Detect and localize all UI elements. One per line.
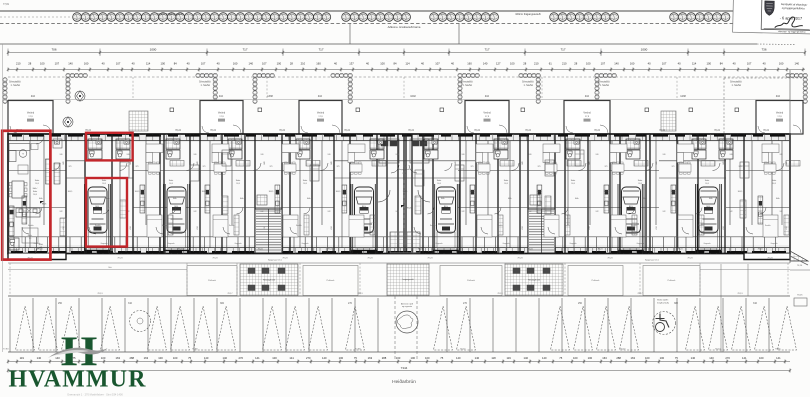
svg-text:140: 140 xyxy=(456,356,461,360)
svg-text:Verönd: Verönd xyxy=(27,112,35,115)
svg-text:28: 28 xyxy=(574,62,577,66)
svg-text:107: 107 xyxy=(662,62,667,66)
svg-text:107: 107 xyxy=(747,62,752,66)
svg-text:Byggingarreitur: Byggingarreitur xyxy=(268,258,282,261)
svg-text:75: 75 xyxy=(675,356,678,360)
svg-text:1338: 1338 xyxy=(267,95,273,98)
svg-text:77,88: 77,88 xyxy=(192,349,198,351)
svg-text:1. hæðar: 1. hæðar xyxy=(463,84,473,87)
garden trees xyxy=(75,91,85,101)
svg-text:100: 100 xyxy=(272,356,277,360)
extra closets and beds xyxy=(120,162,129,178)
scan tone wash xyxy=(8,134,790,254)
svg-text:210: 210 xyxy=(301,62,306,66)
parking stalls xyxy=(9,298,11,352)
svg-text:107: 107 xyxy=(601,62,606,66)
svg-text:78,23: 78,23 xyxy=(767,258,773,260)
svg-text:78,07: 78,07 xyxy=(460,349,466,351)
svg-text:107: 107 xyxy=(201,62,206,66)
svg-text:78,17: 78,17 xyxy=(637,293,643,295)
svg-text:736: 736 xyxy=(761,47,766,51)
svg-text:100: 100 xyxy=(588,356,593,360)
svg-text:270: 270 xyxy=(239,356,244,360)
svg-text:78,24: 78,24 xyxy=(474,130,480,132)
svg-text:78,23: 78,23 xyxy=(427,258,433,260)
svg-text:717: 717 xyxy=(318,47,323,51)
svg-text:107: 107 xyxy=(262,62,267,66)
south dashed connectors xyxy=(9,263,11,296)
svg-text:75: 75 xyxy=(559,356,562,360)
svg-text:140: 140 xyxy=(709,356,714,360)
corridor line xyxy=(8,236,790,238)
svg-text:Grænamýri 1 · 270 Mosfellsbær: Grænamýri 1 · 270 Mosfellsbær · Sími 534… xyxy=(67,393,123,397)
centre drive dashes xyxy=(394,296,396,361)
svg-text:160: 160 xyxy=(630,62,635,66)
svg-text:78,24: 78,24 xyxy=(715,349,721,351)
svg-text:28: 28 xyxy=(523,62,526,66)
svg-text:40: 40 xyxy=(217,62,220,66)
svg-text:78,23: 78,23 xyxy=(282,258,288,260)
svg-text:78,13: 78,13 xyxy=(497,293,503,295)
stamp shield xyxy=(765,1,775,16)
entry paving centre xyxy=(387,264,429,296)
svg-text:1. hæðar: 1. hæðar xyxy=(732,84,742,87)
svg-text:100: 100 xyxy=(573,356,578,360)
svg-text:410: 410 xyxy=(318,95,323,98)
stairwells xyxy=(255,195,282,253)
svg-text:100: 100 xyxy=(277,62,282,66)
svg-text:163: 163 xyxy=(115,356,120,360)
svg-text:107: 107 xyxy=(435,62,440,66)
entry paving south right xyxy=(505,264,563,296)
handicap stall xyxy=(653,312,676,335)
hedge band dashed line xyxy=(0,23,733,25)
svg-text:100: 100 xyxy=(173,356,178,360)
svg-text:100: 100 xyxy=(380,62,385,66)
svg-text:140: 140 xyxy=(614,62,619,66)
svg-text:288: 288 xyxy=(130,356,135,360)
svg-text:717: 717 xyxy=(242,47,247,51)
svg-text:78,23: 78,23 xyxy=(27,258,33,260)
svg-text:78,17: 78,17 xyxy=(227,293,233,295)
svg-text:140: 140 xyxy=(542,356,547,360)
hedge band top line xyxy=(0,10,757,12)
svg-text:140: 140 xyxy=(322,356,327,360)
svg-text:Hellulögð stétt: Hellulögð stétt xyxy=(263,279,275,282)
svg-text:28: 28 xyxy=(290,62,293,66)
garages with cars xyxy=(85,184,111,253)
svg-text:270: 270 xyxy=(463,302,468,305)
building right unit extension xyxy=(744,254,790,260)
svg-text:160: 160 xyxy=(84,62,89,66)
svg-text:75: 75 xyxy=(188,356,191,360)
svg-text:78,24: 78,24 xyxy=(279,130,285,132)
svg-text:140: 140 xyxy=(483,62,488,66)
total dimension xyxy=(8,370,790,372)
svg-text:100: 100 xyxy=(425,356,430,360)
svg-text:78,23: 78,23 xyxy=(517,258,523,260)
svg-text:Verönd: Verönd xyxy=(583,112,591,115)
bottom chain line xyxy=(8,361,790,363)
svg-text:40: 40 xyxy=(733,62,736,66)
svg-text:140: 140 xyxy=(523,356,528,360)
fence posts xyxy=(170,108,174,112)
kitchen counters xyxy=(22,196,27,224)
svg-text:40: 40 xyxy=(102,62,105,66)
svg-text:1238: 1238 xyxy=(680,95,686,98)
svg-text:75: 75 xyxy=(440,356,443,360)
svg-text:1. hæðar: 1. hæðar xyxy=(201,84,211,87)
patio boxes xyxy=(187,266,237,296)
round planter left xyxy=(130,311,151,332)
living furniture xyxy=(146,144,184,237)
svg-text:160: 160 xyxy=(233,62,238,66)
svg-text:310: 310 xyxy=(128,302,133,305)
svg-text:Verönd: Verönd xyxy=(776,112,784,115)
svg-text:1002: 1002 xyxy=(410,95,416,98)
svg-text:77,83: 77,83 xyxy=(3,349,9,351)
svg-text:78,23: 78,23 xyxy=(117,258,123,260)
svg-text:140: 140 xyxy=(475,356,480,360)
svg-text:78,23: 78,23 xyxy=(367,258,373,260)
svg-text:100: 100 xyxy=(160,62,165,66)
svg-text:78,24: 78,24 xyxy=(175,130,181,132)
svg-text:40: 40 xyxy=(187,62,190,66)
svg-text:160: 160 xyxy=(467,62,472,66)
hedge shrubs xyxy=(73,13,730,22)
stamp signature xyxy=(775,17,803,29)
svg-text:100: 100 xyxy=(410,356,415,360)
svg-text:Verönd: Verönd xyxy=(218,112,226,115)
svg-text:210: 210 xyxy=(534,62,539,66)
svg-text:78,24: 78,24 xyxy=(210,130,216,132)
svg-text:270: 270 xyxy=(725,356,730,360)
svg-text:141: 141 xyxy=(742,356,747,360)
svg-text:140: 140 xyxy=(55,356,60,360)
svg-text:Verönd: Verönd xyxy=(317,112,325,115)
west boundary xyxy=(2,44,4,352)
svg-text:og byggingarfulltrúa: og byggingarfulltrúa xyxy=(782,6,805,11)
svg-text:163: 163 xyxy=(396,356,401,360)
svg-text:141: 141 xyxy=(255,356,260,360)
svg-text:140: 140 xyxy=(222,356,227,360)
svg-text:40: 40 xyxy=(334,62,337,66)
svg-text:77,88: 77,88 xyxy=(355,349,361,351)
svg-text:410: 410 xyxy=(31,95,36,98)
svg-text:78,07: 78,07 xyxy=(620,349,626,351)
svg-text:114: 114 xyxy=(146,62,151,66)
verandas xyxy=(8,101,53,135)
svg-text:100: 100 xyxy=(586,62,591,66)
parking bottom line xyxy=(8,351,790,353)
svg-text:Pallverk: Pallverk xyxy=(467,279,476,282)
svg-text:100: 100 xyxy=(40,62,45,66)
secondary partitions xyxy=(29,141,31,248)
svg-text:40: 40 xyxy=(648,62,651,66)
svg-text:HVAMMUR: HVAMMUR xyxy=(9,367,147,393)
svg-text:163: 163 xyxy=(630,356,635,360)
svg-text:Inngangsstétt: Inngangsstétt xyxy=(402,278,414,281)
svg-text:270: 270 xyxy=(348,302,353,305)
svg-text:Hellulögð stétt: Hellulögð stétt xyxy=(528,279,540,282)
svg-text:40: 40 xyxy=(421,62,424,66)
svg-text:78,13: 78,13 xyxy=(737,293,743,295)
red highlight garage 01 xyxy=(86,178,127,247)
svg-text:141: 141 xyxy=(289,356,294,360)
storage partitions bottom xyxy=(13,237,15,252)
red highlight apartment unit 01 xyxy=(2,131,50,260)
svg-text:717: 717 xyxy=(484,47,489,51)
svg-text:100: 100 xyxy=(510,62,515,66)
svg-text:250: 250 xyxy=(58,302,63,305)
svg-text:61: 61 xyxy=(549,62,552,66)
svg-text:78,24: 78,24 xyxy=(408,130,414,132)
svg-text:Merkt stæði f.: Merkt stæði f. xyxy=(657,299,669,302)
svg-text:163: 163 xyxy=(144,356,149,360)
hedge band left dashes xyxy=(0,16,75,18)
svg-text:78,36: 78,36 xyxy=(775,349,781,351)
svg-text:1000: 1000 xyxy=(150,47,157,51)
east boundary xyxy=(789,70,791,263)
svg-text:140: 140 xyxy=(691,356,696,360)
svg-text:1. hæðar: 1. hæðar xyxy=(524,84,534,87)
svg-text:270: 270 xyxy=(306,356,311,360)
svg-text:114: 114 xyxy=(405,62,410,66)
svg-text:40: 40 xyxy=(763,62,766,66)
svg-text:250: 250 xyxy=(578,302,583,305)
red highlight storage rooms xyxy=(86,133,133,161)
svg-text:40: 40 xyxy=(132,62,135,66)
svg-text:75: 75 xyxy=(354,356,357,360)
round planter centre xyxy=(396,311,418,333)
svg-text:Afrennsli í jörð: Afrennsli í jörð xyxy=(401,303,413,306)
svg-text:78,24: 78,24 xyxy=(525,130,531,132)
svg-text:140: 140 xyxy=(794,62,799,66)
svg-text:163: 163 xyxy=(368,356,373,360)
svg-text:1. hæðar: 1. hæðar xyxy=(11,84,21,87)
svg-text:78,23: 78,23 xyxy=(212,258,218,260)
svg-text:1000: 1000 xyxy=(641,47,648,51)
svg-text:410: 410 xyxy=(776,95,781,98)
svg-text:Pallverk: Pallverk xyxy=(668,279,677,282)
main dimension line xyxy=(8,52,805,54)
svg-text:100: 100 xyxy=(759,356,764,360)
svg-text:100: 100 xyxy=(645,356,650,360)
building outline xyxy=(8,134,790,254)
svg-text:78,23: 78,23 xyxy=(607,258,613,260)
interior door arcs xyxy=(53,163,61,171)
dimension chain xyxy=(16,62,799,66)
svg-text:78,24: 78,24 xyxy=(594,130,600,132)
svg-text:210: 210 xyxy=(562,62,567,66)
svg-text:140: 140 xyxy=(248,62,253,66)
bottom window band xyxy=(8,248,790,254)
walkway line xyxy=(8,262,790,264)
svg-text:119: 119 xyxy=(20,356,25,360)
svg-text:78,05: 78,05 xyxy=(797,295,803,297)
building left unit extension xyxy=(8,254,66,260)
top window band xyxy=(8,134,790,141)
north boundary line xyxy=(0,43,757,45)
svg-text:288: 288 xyxy=(382,356,387,360)
svg-text:382: 382 xyxy=(674,302,679,305)
svg-text:78,24: 78,24 xyxy=(763,130,769,132)
Hvammur logo monogram H xyxy=(61,328,98,375)
svg-text:Pallverk: Pallverk xyxy=(208,279,217,282)
svg-text:100: 100 xyxy=(339,356,344,360)
entry paving south left xyxy=(240,264,298,296)
svg-text:410: 410 xyxy=(219,95,224,98)
svg-text:310: 310 xyxy=(753,302,758,305)
unit horizontal partitions xyxy=(8,170,66,172)
svg-text:410: 410 xyxy=(485,95,490,98)
svg-text:160: 160 xyxy=(316,62,321,66)
svg-text:100: 100 xyxy=(706,62,711,66)
svg-text:163: 163 xyxy=(602,356,607,360)
approval stamp xyxy=(733,0,810,34)
central refuse/lobby xyxy=(390,232,420,253)
svg-text:706: 706 xyxy=(51,47,56,51)
svg-text:78,24: 78,24 xyxy=(659,130,665,132)
svg-text:141: 141 xyxy=(776,356,781,360)
svg-text:40: 40 xyxy=(366,62,369,66)
svg-text:7344: 7344 xyxy=(401,366,408,370)
svg-text:hreyfihamlaða: hreyfihamlaða xyxy=(657,301,670,304)
svg-text:og regnvatn: og regnvatn xyxy=(402,305,412,308)
garden dashed boundaries xyxy=(8,76,790,78)
parking top line xyxy=(8,295,790,297)
svg-text:140: 140 xyxy=(68,62,73,66)
svg-text:78,23: 78,23 xyxy=(687,258,693,260)
svg-text:78,13: 78,13 xyxy=(357,293,363,295)
logo swoosh xyxy=(48,348,108,358)
garden dividers xyxy=(65,77,67,100)
chain tick line xyxy=(8,69,805,71)
svg-text:127: 127 xyxy=(496,62,501,66)
svg-text:40: 40 xyxy=(451,62,454,66)
svg-text:78,16: 78,16 xyxy=(797,265,803,267)
svg-text:28: 28 xyxy=(28,62,31,66)
svg-text:40: 40 xyxy=(678,62,681,66)
svg-text:100: 100 xyxy=(660,356,665,360)
svg-text:119: 119 xyxy=(506,356,511,360)
svg-text:140: 140 xyxy=(204,356,209,360)
svg-text:100: 100 xyxy=(101,356,106,360)
svg-text:78,24: 78,24 xyxy=(85,130,91,132)
svg-text:1. hæðar: 1. hæðar xyxy=(600,84,610,87)
svg-text:Byggingarreitur: Byggingarreitur xyxy=(645,258,659,261)
unit 01 interior (red highlighted apartment) xyxy=(9,136,51,254)
svg-text:137: 137 xyxy=(349,62,354,66)
bottom chain xyxy=(20,356,781,360)
svg-text:210: 210 xyxy=(16,62,21,66)
svg-text:77,81: 77,81 xyxy=(3,3,10,6)
svg-text:Pallverk: Pallverk xyxy=(592,279,601,282)
svg-text:84: 84 xyxy=(174,62,177,66)
svg-text:140: 140 xyxy=(37,356,42,360)
garden shrub groups xyxy=(3,78,7,104)
svg-text:78,24: 78,24 xyxy=(714,130,720,132)
playground plot lines xyxy=(349,24,351,45)
SE ramp wedge xyxy=(790,251,808,261)
svg-text:118: 118 xyxy=(491,356,496,360)
svg-text:382: 382 xyxy=(220,302,225,305)
svg-text:78,13: 78,13 xyxy=(97,293,103,295)
svg-text:410: 410 xyxy=(585,95,590,98)
svg-text:114: 114 xyxy=(692,62,697,66)
svg-text:Verönd: Verönd xyxy=(483,112,491,115)
svg-text:84: 84 xyxy=(394,62,397,66)
entry paving top xyxy=(129,111,148,131)
svg-text:78,24: 78,24 xyxy=(344,130,350,132)
svg-text:107: 107 xyxy=(55,62,60,66)
svg-text:160: 160 xyxy=(779,62,784,66)
svg-text:717: 717 xyxy=(560,47,565,51)
svg-text:Heiðarbrún: Heiðarbrún xyxy=(392,378,416,385)
svg-text:107: 107 xyxy=(116,62,121,66)
parking trees xyxy=(16,306,35,350)
svg-text:Pallverk: Pallverk xyxy=(327,279,336,282)
svg-text:288: 288 xyxy=(616,356,621,360)
svc strip next to unit 01 xyxy=(54,163,60,184)
svg-text:84: 84 xyxy=(720,62,723,66)
bath cores xyxy=(88,139,102,159)
svg-text:100: 100 xyxy=(158,356,163,360)
svg-text:Stét: Stét xyxy=(108,266,112,269)
unit dividing walls xyxy=(65,134,67,254)
